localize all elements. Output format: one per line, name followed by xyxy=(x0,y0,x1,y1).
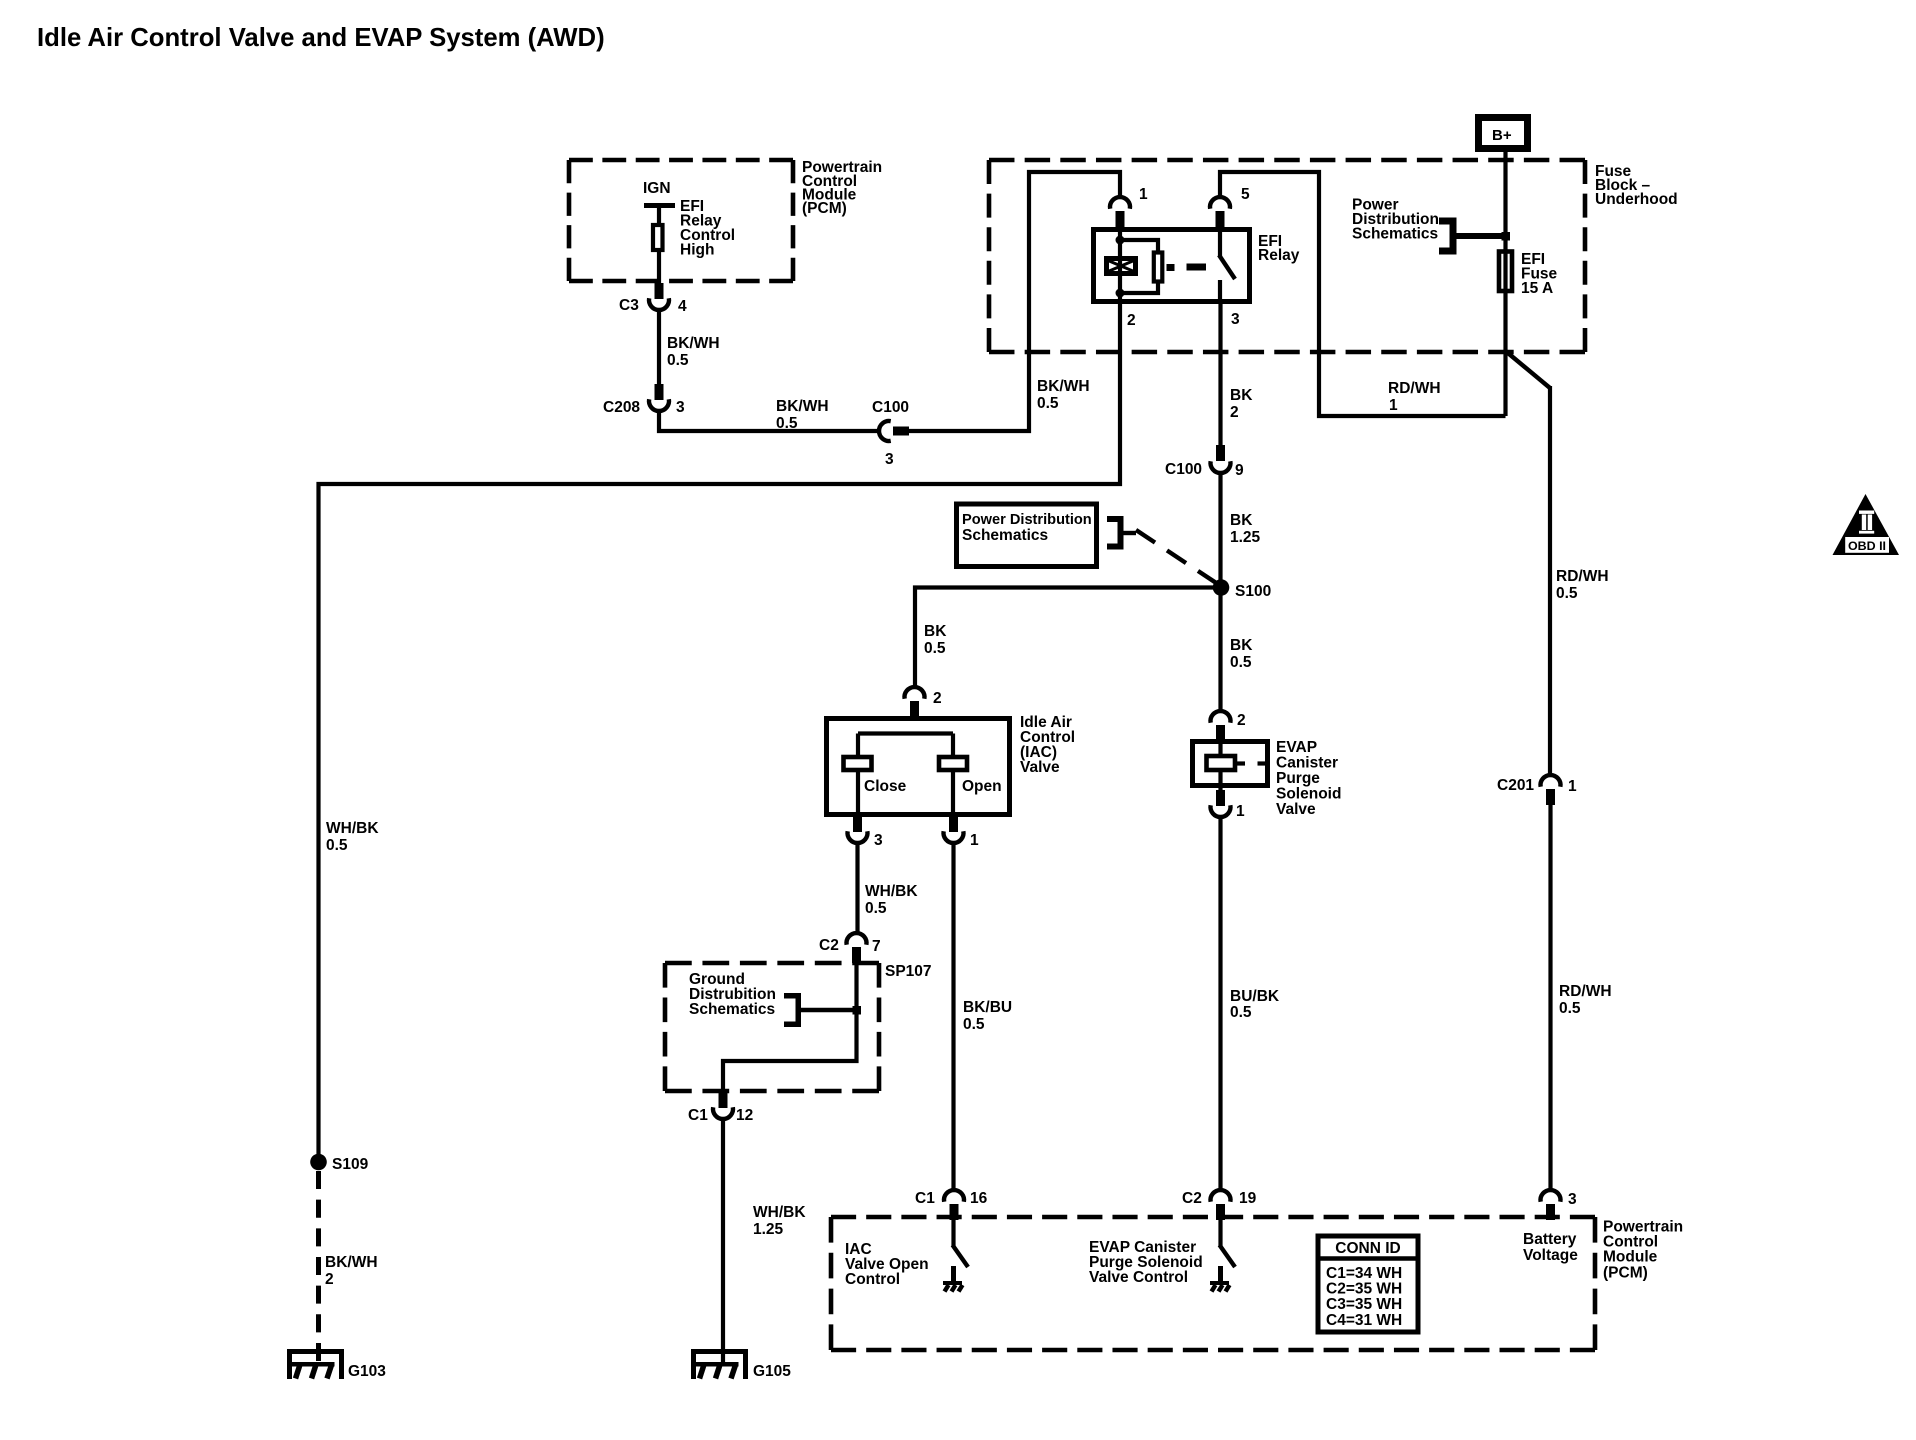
svg-text:C3=35 WH: C3=35 WH xyxy=(1326,1296,1402,1313)
svg-text:4: 4 xyxy=(678,298,687,315)
svg-text:Underhood: Underhood xyxy=(1595,191,1678,208)
IAC internal top link xyxy=(858,731,953,735)
svg-text:16: 16 xyxy=(970,1190,988,1207)
wire resistor to C3 xyxy=(657,250,661,290)
Fuse Block - Underhood dashed box xyxy=(989,160,1585,352)
svg-text:C1: C1 xyxy=(915,1190,935,1207)
wire EVAP pin 1 to C2 pin 19, BU/BK 0.5 xyxy=(1218,816,1222,1191)
wire C208 to C100, BK/WH 0.5 xyxy=(659,409,878,431)
svg-text:Solenoid: Solenoid xyxy=(1276,786,1341,803)
svg-text:Voltage: Voltage xyxy=(1523,1247,1578,1264)
ground symbol (IAC driver) xyxy=(943,1281,963,1292)
svg-text:0.5: 0.5 xyxy=(924,640,946,657)
IAC open coil branch xyxy=(939,734,1002,819)
svg-text:C100: C100 xyxy=(1165,461,1202,478)
svg-text:Idle Air Control Valve and EVA: Idle Air Control Valve and EVAP System (… xyxy=(37,24,605,52)
svg-text:C3: C3 xyxy=(619,297,639,314)
B+ battery feed box xyxy=(1479,118,1528,149)
EFI relay box xyxy=(1094,230,1250,302)
EVAP coil xyxy=(1207,744,1266,791)
connector C3 pin 4 xyxy=(619,283,687,315)
svg-text:WH/BK: WH/BK xyxy=(865,883,918,900)
svg-text:15 A: 15 A xyxy=(1521,280,1553,297)
ground G103 xyxy=(287,1349,386,1380)
relay parallel resistor branch xyxy=(1120,240,1162,293)
resistor EFI Relay Control High driver xyxy=(653,225,663,250)
svg-text:Control: Control xyxy=(845,1271,900,1288)
relay coil wire xyxy=(1118,227,1122,304)
splice S100 xyxy=(1213,579,1272,600)
EVAP driver switch in PCM xyxy=(1220,1219,1236,1282)
svg-text:2: 2 xyxy=(325,1271,334,1288)
connector C208 pin 3 xyxy=(603,384,685,416)
svg-text:1: 1 xyxy=(1389,397,1398,414)
svg-text:0.5: 0.5 xyxy=(1230,1004,1252,1021)
svg-text:2: 2 xyxy=(1237,712,1246,729)
svg-text:Schematics: Schematics xyxy=(1352,226,1438,243)
wire C100 to relay pin 1, BK/WH 0.5 xyxy=(907,172,1120,431)
svg-text:BK: BK xyxy=(1230,512,1253,529)
svg-text:Close: Close xyxy=(864,778,907,795)
dashed wire S109 to G103, BK/WH 2 xyxy=(316,1171,321,1361)
svg-text:3: 3 xyxy=(874,832,883,849)
junction at SP107 xyxy=(853,1006,862,1015)
svg-text:C1=34 WH: C1=34 WH xyxy=(1326,1265,1402,1282)
svg-text:0.5: 0.5 xyxy=(1037,395,1059,412)
svg-text:3: 3 xyxy=(676,399,685,416)
PCM (top) dashed module box xyxy=(569,160,793,281)
svg-text:C2=35 WH: C2=35 WH xyxy=(1326,1281,1402,1298)
svg-text:BK/WH: BK/WH xyxy=(1037,378,1090,395)
svg-text:5: 5 xyxy=(1241,186,1250,203)
svg-text:0.5: 0.5 xyxy=(865,900,887,917)
label EFI Relay xyxy=(1258,233,1300,264)
connector C201 pin 1 xyxy=(1497,775,1577,805)
svg-text:0.5: 0.5 xyxy=(1556,585,1578,602)
svg-text:High: High xyxy=(680,242,714,259)
svg-text:C100: C100 xyxy=(872,399,909,416)
wire C1-12 to G105, WH/BK 1.25 xyxy=(721,1118,725,1364)
label EVAP Canister Purge Solenoid Valve xyxy=(1276,739,1341,818)
svg-text:Valve: Valve xyxy=(1276,801,1316,818)
svg-text:0.5: 0.5 xyxy=(326,837,348,854)
Ground Distribution dashed box xyxy=(665,963,879,1091)
svg-text:0.5: 0.5 xyxy=(667,352,689,369)
wire S100 down to EVAP pin 2, BK 0.5 xyxy=(1218,594,1222,710)
wire C201 to PCM pin 3, RD/WH 0.5 xyxy=(1548,805,1552,1191)
label EVAP Canister Purge Solenoid Valve Control xyxy=(1089,1239,1203,1286)
label Idle Air Control (IAC) Valve xyxy=(1020,714,1075,776)
svg-text:Purge: Purge xyxy=(1276,770,1320,787)
Fuse Block label xyxy=(1595,163,1678,208)
Power Distribution Schematics reference box (middle) xyxy=(957,504,1137,567)
svg-text:BK/BU: BK/BU xyxy=(963,999,1012,1016)
wire S100 to IAC pin 2, BK 0.5 xyxy=(915,588,1221,689)
svg-text:1.25: 1.25 xyxy=(1230,529,1261,546)
connector C100 pin 9 xyxy=(1165,445,1244,479)
svg-text:IGN: IGN xyxy=(643,180,671,197)
svg-text:B+: B+ xyxy=(1492,127,1512,144)
svg-text:BK/WH: BK/WH xyxy=(776,398,829,415)
wire C2-7 through ground distribution to C1-12 xyxy=(723,961,857,1092)
svg-text:0.5: 0.5 xyxy=(1230,654,1252,671)
connector IAC pin 2 xyxy=(905,687,942,716)
svg-text:BK: BK xyxy=(1230,637,1253,654)
svg-text:Valve: Valve xyxy=(1020,759,1060,776)
svg-text:SP107: SP107 xyxy=(885,963,932,980)
svg-text:(PCM): (PCM) xyxy=(1603,1265,1648,1282)
Power Distribution Schematics reference (fuse block) xyxy=(1352,197,1502,255)
wire RD/WH 0.5 fuse to C201 xyxy=(1506,351,1551,776)
PCM (top) label xyxy=(802,159,882,217)
relay switch xyxy=(1219,227,1235,304)
svg-text:G103: G103 xyxy=(348,1363,386,1380)
wire C3 to C208, BK/WH 0.5 xyxy=(657,310,661,386)
IAC valve box xyxy=(827,719,1010,815)
svg-text:CONN ID: CONN ID xyxy=(1335,1240,1400,1257)
svg-text:RD/WH: RD/WH xyxy=(1556,568,1609,585)
svg-text:OBD II: OBD II xyxy=(1848,539,1886,553)
svg-text:2: 2 xyxy=(1127,312,1136,329)
svg-text:3: 3 xyxy=(885,451,894,468)
connector C1 pin 12 xyxy=(688,1092,753,1124)
svg-text:S100: S100 xyxy=(1235,583,1271,600)
fuse EFI Fuse 15 A xyxy=(1499,251,1558,297)
svg-text:C2: C2 xyxy=(1182,1190,1202,1207)
connector EVAP pin 1 xyxy=(1211,790,1245,820)
connector EVAP pin 2 xyxy=(1211,711,1246,740)
junction at fuse top xyxy=(1502,232,1511,241)
svg-text:RD/WH: RD/WH xyxy=(1388,380,1441,397)
svg-text:EVAP: EVAP xyxy=(1276,739,1317,756)
svg-text:C4=31 WH: C4=31 WH xyxy=(1326,1312,1402,1329)
Ground Distrubition Schematics reference xyxy=(689,971,853,1027)
svg-text:G105: G105 xyxy=(753,1363,791,1380)
svg-text:BU/BK: BU/BK xyxy=(1230,988,1280,1005)
svg-text:WH/BK: WH/BK xyxy=(326,820,379,837)
svg-text:0.5: 0.5 xyxy=(963,1016,985,1033)
wire relay pin 3 to C100 pin 9, BK 2 xyxy=(1218,302,1222,447)
svg-text:3: 3 xyxy=(1231,311,1240,328)
svg-text:C2: C2 xyxy=(819,937,839,954)
svg-text:(PCM): (PCM) xyxy=(802,200,847,217)
IAC driver switch in PCM xyxy=(953,1219,969,1282)
svg-text:0.5: 0.5 xyxy=(1559,1000,1581,1017)
svg-text:C208: C208 xyxy=(603,399,640,416)
svg-text:C1: C1 xyxy=(688,1107,708,1124)
svg-text:Schematics: Schematics xyxy=(689,1001,775,1018)
connector C2 pin 7 xyxy=(819,933,881,963)
svg-text:Power Distribution: Power Distribution xyxy=(962,512,1092,528)
svg-text:Module: Module xyxy=(1603,1249,1658,1266)
relay coil symbol xyxy=(1107,259,1136,274)
svg-text:2: 2 xyxy=(1230,404,1239,421)
svg-text:Canister: Canister xyxy=(1276,755,1338,772)
svg-text:BK: BK xyxy=(924,623,947,640)
svg-text:9: 9 xyxy=(1235,462,1244,479)
svg-text:7: 7 xyxy=(872,938,881,955)
label EFI Relay Control High xyxy=(680,198,735,259)
relay armature linkage xyxy=(1167,264,1207,272)
connector PCM pin 3 (battery voltage) xyxy=(1541,1190,1578,1220)
svg-text:1: 1 xyxy=(1236,803,1245,820)
svg-text:1: 1 xyxy=(1139,186,1148,203)
connector C1 pin 16 xyxy=(915,1190,988,1220)
wire IGN to resistor xyxy=(657,205,661,227)
wire RD/WH 1 from fuse to relay pin 5 xyxy=(1220,172,1506,416)
svg-text:Schematics: Schematics xyxy=(962,527,1048,544)
svg-text:3: 3 xyxy=(1568,1191,1577,1208)
wire IAC pin 1 to C1 pin 16, BK/BU 0.5 xyxy=(951,842,955,1191)
svg-text:BK: BK xyxy=(1230,387,1253,404)
svg-text:BK/WH: BK/WH xyxy=(325,1254,378,1271)
svg-text:Relay: Relay xyxy=(1258,247,1300,264)
svg-text:WH/BK: WH/BK xyxy=(753,1204,806,1221)
ground symbol (EVAP driver) xyxy=(1210,1281,1230,1292)
OBD II marker xyxy=(1833,494,1900,555)
svg-text:S109: S109 xyxy=(332,1156,369,1173)
PCM (bottom) dashed module box xyxy=(831,1217,1595,1350)
label WH/BK 0.5 (left) xyxy=(326,820,379,854)
label IAC Valve Open Control xyxy=(845,1241,929,1288)
svg-text:RD/WH: RD/WH xyxy=(1559,983,1612,1000)
svg-text:Valve Control: Valve Control xyxy=(1089,1269,1188,1286)
wire IAC pin 3 to C2 pin 7, WH/BK 0.5 xyxy=(855,842,859,933)
svg-text:C201: C201 xyxy=(1497,777,1534,794)
svg-text:2: 2 xyxy=(933,690,942,707)
svg-text:0.5: 0.5 xyxy=(776,415,798,432)
relay pin 1 connector xyxy=(1110,186,1148,227)
svg-text:1: 1 xyxy=(1568,778,1577,795)
PCM (bottom) label xyxy=(1603,1219,1683,1282)
EVAP solenoid box xyxy=(1193,742,1268,786)
relay coil junction dots xyxy=(1116,236,1125,245)
svg-text:Battery: Battery xyxy=(1523,1231,1577,1248)
svg-text:Open: Open xyxy=(962,778,1002,795)
label Battery Voltage xyxy=(1523,1231,1578,1264)
CONN ID table xyxy=(1316,1236,1421,1332)
ground G105 xyxy=(691,1349,791,1380)
relay pin 5 connector xyxy=(1210,186,1250,227)
svg-text:BK/WH: BK/WH xyxy=(667,335,720,352)
splice S109 xyxy=(310,1154,368,1173)
wire B+ down through fuse to RD/WH 1 xyxy=(1503,152,1507,416)
svg-text:12: 12 xyxy=(736,1107,753,1124)
svg-text:19: 19 xyxy=(1239,1190,1257,1207)
connector C100 pin 3 xyxy=(872,399,909,468)
connector IAC pin 3 xyxy=(848,816,884,849)
connector C2 pin 19 xyxy=(1182,1190,1257,1220)
wire relay pin 2 to S109 (coil ground side) xyxy=(319,302,1121,1156)
dashed reference wire to S100 xyxy=(1136,530,1217,584)
connector IAC pin 1 xyxy=(944,816,980,849)
svg-text:1: 1 xyxy=(970,832,979,849)
svg-text:1.25: 1.25 xyxy=(753,1221,784,1238)
IGN terminal bar xyxy=(644,203,675,208)
wire C100-9 to S100, BK 1.25 xyxy=(1218,472,1222,581)
IAC close coil branch xyxy=(844,734,907,819)
